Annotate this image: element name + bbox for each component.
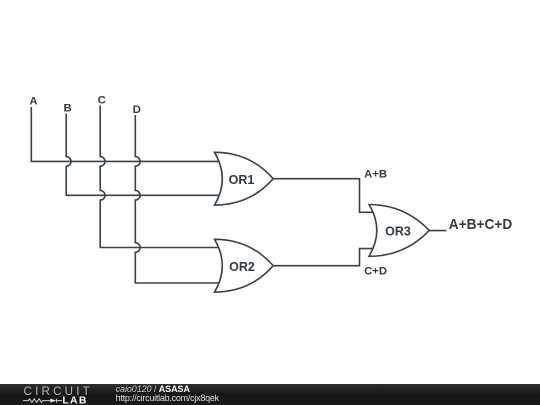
- svg-text:LAB: LAB: [62, 396, 87, 405]
- svg-text:A+B+C+D: A+B+C+D: [449, 217, 513, 233]
- svg-text:OR1: OR1: [229, 173, 255, 187]
- svg-text:OR3: OR3: [385, 224, 411, 238]
- svg-text:OR2: OR2: [229, 260, 255, 274]
- svg-text:A: A: [29, 96, 37, 108]
- svg-text:A+B: A+B: [364, 169, 387, 181]
- svg-text:C+D: C+D: [364, 266, 387, 278]
- svg-text:B: B: [63, 103, 71, 115]
- svg-text:C: C: [98, 95, 106, 107]
- svg-text:D: D: [133, 104, 141, 116]
